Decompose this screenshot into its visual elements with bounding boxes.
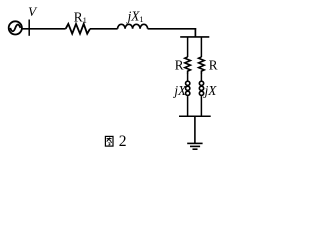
svg-text:jX: jX [203,83,218,98]
top bus bar [180,36,209,38]
resistor R (left) [185,57,191,74]
node V tick [28,20,30,36]
wire right branch top [200,37,202,57]
svg-text:R: R [175,58,184,73]
wire inductor to corner [148,28,197,30]
wire left branch top [187,37,189,57]
caption glyph tu (figure) [105,136,113,146]
AC source V1 [9,21,22,34]
svg-text:R: R [209,58,218,73]
wire source to resistor [22,28,66,30]
svg-text:2: 2 [119,133,127,150]
svg-text:V: V [28,4,38,19]
wire left branch bottom [187,96,189,116]
svg-text:R1: R1 [74,10,87,26]
wire left mid [187,73,189,81]
wire corner drop [194,28,196,37]
inductor jX1 [118,24,148,29]
svg-text:jX1: jX1 [126,9,144,25]
resistor R1 [66,24,90,34]
wire right branch bottom [200,96,202,116]
bottom bus bar [179,115,211,117]
resistor R (right) [199,57,205,74]
wire resistor to inductor [90,28,118,30]
svg-text:jX: jX [172,83,187,98]
ground [187,143,202,149]
wire stem to ground [194,116,196,143]
inductor jX (right) [199,81,203,95]
inductor jX (left) [186,81,190,95]
wire right mid [200,73,202,81]
